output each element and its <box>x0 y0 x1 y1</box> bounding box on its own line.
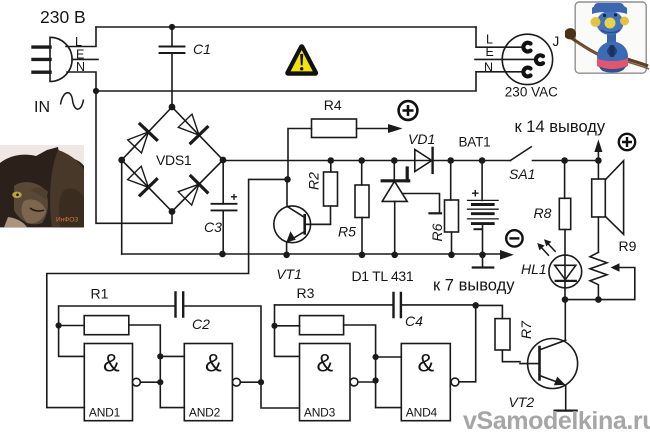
svg-text:R7: R7 <box>518 320 534 339</box>
svg-text:N: N <box>484 61 493 75</box>
svg-text:&: & <box>103 350 120 378</box>
svg-text:AND2: AND2 <box>189 406 221 420</box>
svg-text:R2: R2 <box>306 172 322 190</box>
svg-text:к 14 выводу: к 14 выводу <box>515 118 606 136</box>
svg-text:AND1: AND1 <box>89 406 121 420</box>
svg-text:R6: R6 <box>429 223 445 241</box>
svg-text:R1: R1 <box>91 286 109 302</box>
svg-text:ИнФОЗ: ИнФОЗ <box>56 217 78 224</box>
svg-text:+: + <box>472 186 480 201</box>
svg-text:vSamodelkina.ru: vSamodelkina.ru <box>463 407 650 435</box>
svg-text:HL1: HL1 <box>521 261 547 277</box>
svg-text:AND4: AND4 <box>406 406 438 420</box>
svg-text:R5: R5 <box>338 224 356 240</box>
svg-text:+: + <box>231 190 238 204</box>
svg-text:C1: C1 <box>193 41 211 57</box>
svg-text:C2: C2 <box>192 316 210 332</box>
svg-text:к 7 выводу: к 7 выводу <box>433 277 515 295</box>
svg-text:R9: R9 <box>619 238 637 254</box>
svg-text:C3: C3 <box>204 219 222 235</box>
svg-text:&: & <box>317 350 334 378</box>
svg-text:230 В: 230 В <box>40 7 86 27</box>
svg-text:R8: R8 <box>534 205 552 221</box>
svg-text:&: & <box>418 350 435 378</box>
svg-text:D1 TL 431: D1 TL 431 <box>352 268 414 284</box>
svg-text:AND3: AND3 <box>304 406 336 420</box>
svg-text:VD1: VD1 <box>408 131 435 147</box>
svg-text:BAT1: BAT1 <box>459 135 491 150</box>
svg-text:E: E <box>486 45 494 59</box>
svg-text:230 VAC: 230 VAC <box>505 85 558 100</box>
svg-text:J: J <box>553 34 560 49</box>
svg-text:IN: IN <box>34 99 50 116</box>
svg-text:VT1: VT1 <box>276 266 302 282</box>
svg-text:R4: R4 <box>324 97 342 113</box>
svg-text:&: & <box>205 350 222 378</box>
svg-text:R3: R3 <box>297 285 315 301</box>
svg-text:SA1: SA1 <box>509 166 535 182</box>
svg-text:N: N <box>76 60 85 74</box>
svg-text:C4: C4 <box>405 313 423 329</box>
svg-text:VDS1: VDS1 <box>156 152 192 168</box>
